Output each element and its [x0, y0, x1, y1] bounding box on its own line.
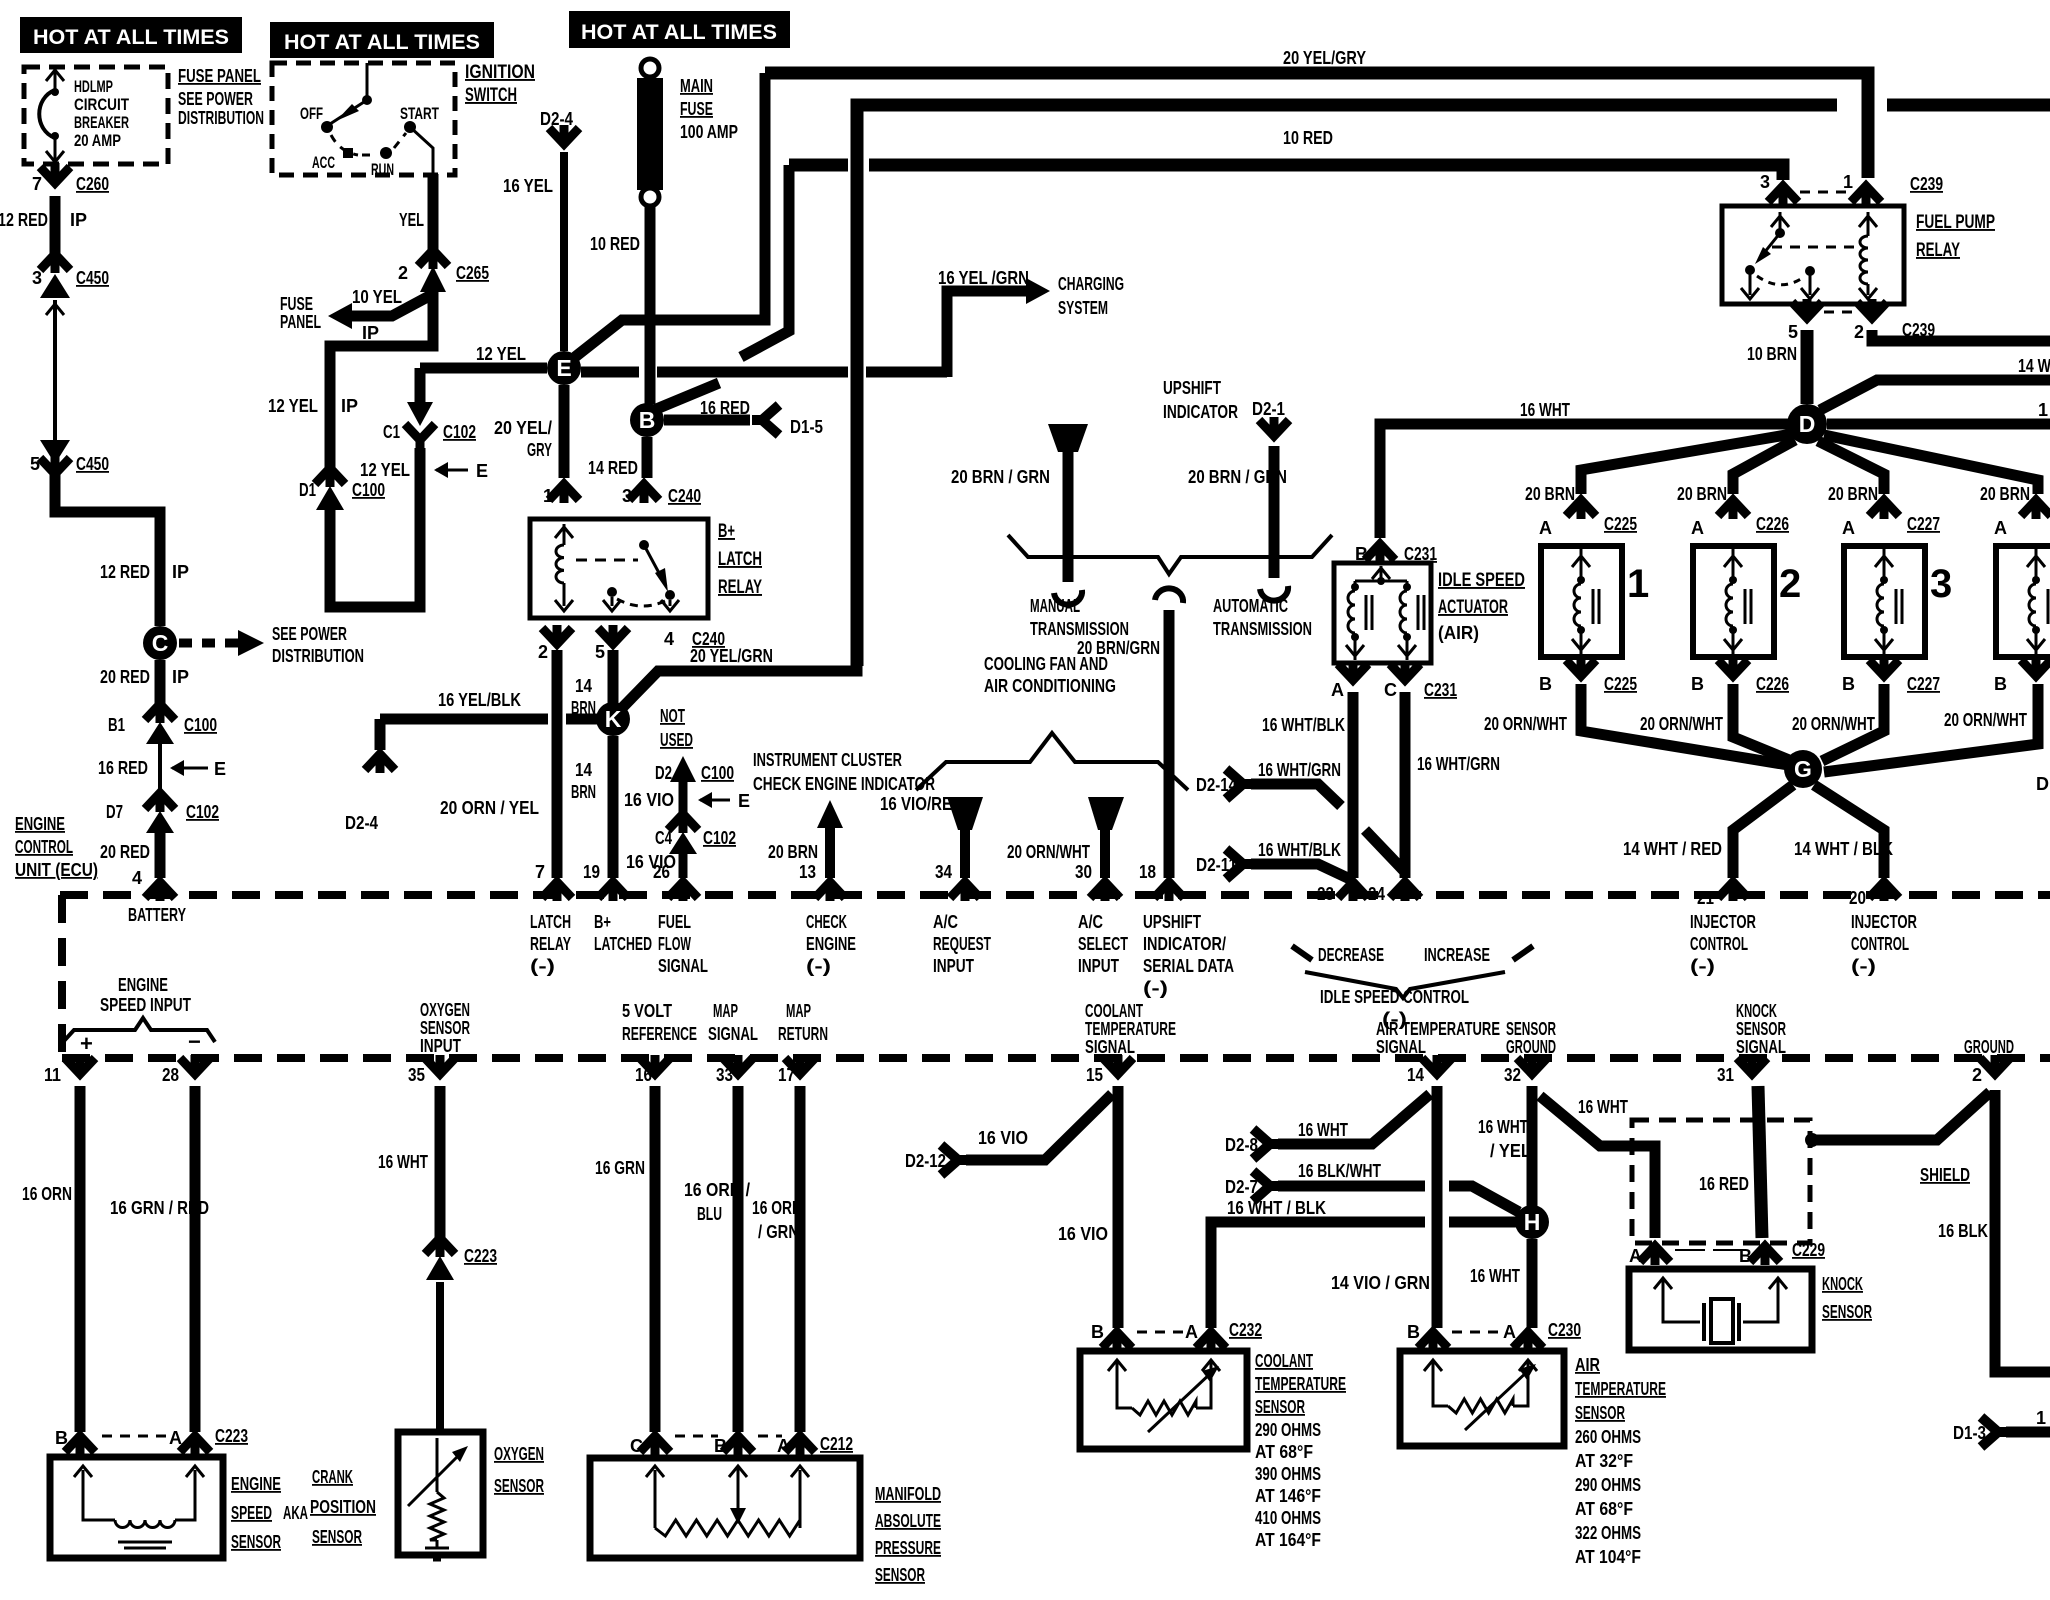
- svg-text:SIGNAL: SIGNAL: [1376, 1037, 1426, 1057]
- svg-text:SENSOR: SENSOR: [231, 1532, 281, 1552]
- latch relay switch: [639, 540, 649, 550]
- svg-text:1: 1: [2038, 400, 2048, 420]
- svg-text:24: 24: [1368, 884, 1385, 904]
- svg-text:SENSOR: SENSOR: [1506, 1019, 1556, 1039]
- latch relay coil: [555, 527, 573, 538]
- connector C100 pin B1: [145, 702, 175, 723]
- svg-text:RELAY: RELAY: [1916, 240, 1960, 261]
- svg-text:OXYGEN: OXYGEN: [494, 1444, 544, 1464]
- injector 3 connector B C227: [1869, 657, 1899, 678]
- svg-text:K: K: [605, 706, 622, 732]
- wire 14 WHT/RED to ECU pin 21: [1733, 785, 1793, 878]
- svg-text:32: 32: [1504, 1065, 1521, 1085]
- svg-text:E: E: [214, 759, 226, 779]
- svg-text:FLOW: FLOW: [658, 934, 691, 954]
- svg-text:TEMPERATURE: TEMPERATURE: [1255, 1374, 1346, 1394]
- connector latch pin 5: [598, 625, 628, 646]
- svg-text:20 ORN / YEL: 20 ORN / YEL: [440, 798, 539, 818]
- wire 16 RED thin: [158, 744, 162, 796]
- svg-text:SYSTEM: SYSTEM: [1058, 298, 1108, 318]
- wire 16 VIO to coolant sensor: [1113, 1086, 1124, 1328]
- wire 20 BRN/GRN upshift: [1063, 450, 1074, 582]
- connector D2-12: [941, 1145, 968, 1175]
- node K: [596, 702, 630, 736]
- svg-text:12 RED: 12 RED: [0, 210, 48, 230]
- svg-text:B: B: [1691, 674, 1704, 694]
- svg-text:(AIR): (AIR): [1438, 623, 1479, 643]
- svg-text:MANIFOLD: MANIFOLD: [875, 1484, 941, 1504]
- engine speed sensor interior: [83, 1470, 195, 1520]
- svg-text:MANUAL: MANUAL: [1030, 596, 1080, 616]
- wire 20 ORN/WHT injector1 to G: [1581, 684, 1788, 765]
- node H: [1515, 1205, 1549, 1239]
- connector C100 pin D2 arrow: [670, 756, 696, 782]
- connector ECU pin 34: [950, 880, 980, 901]
- svg-text:INPUT: INPUT: [933, 956, 974, 976]
- svg-text:REFERENCE: REFERENCE: [622, 1024, 697, 1044]
- svg-text:SWITCH: SWITCH: [465, 85, 517, 106]
- svg-text:3: 3: [1930, 562, 1952, 606]
- svg-text:A: A: [1994, 518, 2007, 538]
- svg-text:AT 68°F: AT 68°F: [1575, 1499, 1633, 1519]
- injector 4 coil: [2035, 548, 2038, 578]
- svg-text:D2-7: D2-7: [1225, 1177, 1258, 1197]
- svg-text:INDICATOR: INDICATOR: [1163, 402, 1238, 422]
- svg-text:5: 5: [30, 454, 40, 474]
- connector C450 pin 5: [40, 440, 70, 464]
- svg-text:410 OHMS: 410 OHMS: [1255, 1508, 1321, 1528]
- svg-text:16 VIO/RED: 16 VIO/RED: [880, 794, 963, 814]
- connector D2-1: [1259, 417, 1289, 438]
- svg-text:16 VIO: 16 VIO: [978, 1128, 1028, 1148]
- connector C223 pin B: [65, 1434, 95, 1455]
- svg-text:18: 18: [1139, 862, 1156, 882]
- connector ECU pin 16: [640, 1055, 670, 1076]
- svg-text:30: 30: [1075, 862, 1092, 882]
- svg-text:MAP: MAP: [786, 1001, 811, 1021]
- svg-text:10 RED: 10 RED: [1283, 128, 1333, 148]
- svg-text:19: 19: [583, 862, 600, 882]
- svg-text:D2-8: D2-8: [1225, 1135, 1258, 1155]
- ECU top dashed boundary: [60, 891, 2050, 899]
- svg-text:20 BRN: 20 BRN: [1980, 484, 2030, 504]
- ignition switch pivot: [362, 95, 372, 105]
- svg-text:16 WHT/GRN: 16 WHT/GRN: [1417, 754, 1500, 774]
- svg-text:INDICATOR/: INDICATOR/: [1143, 934, 1226, 954]
- svg-text:PANEL: PANEL: [280, 312, 321, 332]
- connector C223 pin A: [180, 1434, 210, 1455]
- connector ECU pin 28: [180, 1055, 210, 1076]
- svg-text:A: A: [1842, 518, 1855, 538]
- wire 16 ORN pin 11: [75, 1086, 86, 1432]
- svg-text:POSITION: POSITION: [310, 1497, 376, 1517]
- wire loop D1 to C1: [330, 448, 420, 607]
- svg-text:AIR TEMPERATURE: AIR TEMPERATURE: [1376, 1019, 1500, 1039]
- svg-text:D2-4: D2-4: [540, 109, 573, 129]
- svg-text:ABSOLUTE: ABSOLUTE: [875, 1511, 941, 1531]
- svg-text:MAP: MAP: [713, 1001, 738, 1021]
- svg-text:20 BRN: 20 BRN: [1828, 484, 1878, 504]
- svg-text:13: 13: [799, 862, 816, 882]
- connector C212 pin A: [785, 1434, 815, 1455]
- svg-text:RUN: RUN: [371, 160, 394, 179]
- wire 16 GRN/RED pin 28: [190, 1086, 201, 1432]
- svg-text:DISTRIBUTION: DISTRIBUTION: [272, 646, 364, 666]
- svg-text:GROUND: GROUND: [1506, 1037, 1556, 1057]
- wire 16 WHT/GRN from D2-14: [1251, 784, 1405, 872]
- svg-text:10 BRN: 10 BRN: [1747, 344, 1797, 364]
- svg-text:FUSE: FUSE: [280, 294, 313, 314]
- wire 20 BRN/GRN D2-1: [1269, 446, 1280, 578]
- connector C232 pin B: [1102, 1330, 1132, 1351]
- connector ECU pin 15: [1103, 1055, 1133, 1076]
- latch relay dashed link: [576, 559, 638, 562]
- svg-text:16 WHT: 16 WHT: [1478, 1117, 1528, 1137]
- svg-text:C100: C100: [352, 480, 385, 500]
- arrow input A/C request: [947, 797, 983, 830]
- svg-text:20 YEL/GRY: 20 YEL/GRY: [1283, 48, 1366, 68]
- svg-text:SIGNAL: SIGNAL: [658, 956, 708, 976]
- svg-text:14: 14: [575, 760, 592, 780]
- svg-text:C102: C102: [703, 828, 736, 848]
- hook automatic transmission: [1260, 586, 1288, 601]
- svg-text:16 ORN: 16 ORN: [22, 1184, 72, 1204]
- arrow to charging system: [1026, 278, 1050, 304]
- air temperature sensor box: [1400, 1351, 1564, 1446]
- svg-text:16 RED: 16 RED: [700, 398, 750, 418]
- svg-text:14 W: 14 W: [2018, 356, 2050, 376]
- svg-text:16 WHT: 16 WHT: [378, 1152, 428, 1172]
- RUN contact: [380, 147, 392, 159]
- svg-text:16 YEL /GRN: 16 YEL /GRN: [938, 268, 1029, 288]
- fuel pump relay interior switch: [1771, 216, 1789, 227]
- svg-text:H: H: [1524, 1209, 1541, 1235]
- wire START to YEL: [410, 127, 433, 176]
- wire 16 WHT from actuator to node D: [1380, 424, 1790, 538]
- connector D1-3: [1981, 1417, 2008, 1447]
- svg-text:+: +: [80, 1031, 93, 1056]
- svg-text:16 YEL: 16 YEL: [503, 176, 553, 196]
- hook manual transmission: [1054, 590, 1082, 605]
- wire 20 RED IP: [155, 660, 166, 710]
- connector ECU pin 24: [1390, 880, 1420, 901]
- wire 16 WHT pin 32 to node H: [1527, 1086, 1538, 1206]
- wire 10 RED from main fuse to node B: [645, 206, 656, 404]
- svg-text:28: 28: [162, 1065, 179, 1085]
- svg-text:20 BRN / GRN: 20 BRN / GRN: [951, 467, 1050, 487]
- svg-text:IP: IP: [341, 396, 358, 416]
- svg-text:E: E: [556, 355, 571, 381]
- svg-text:AKA: AKA: [283, 1503, 308, 1523]
- svg-text:20 ORN/WHT: 20 ORN/WHT: [1007, 842, 1090, 862]
- svg-text:290 OHMS: 290 OHMS: [1255, 1420, 1321, 1440]
- svg-text:G: G: [1794, 756, 1812, 782]
- svg-text:ENGINE: ENGINE: [15, 814, 65, 834]
- svg-text:UPSHIFT: UPSHIFT: [1163, 378, 1221, 398]
- svg-text:SELECT: SELECT: [1078, 934, 1128, 954]
- svg-text:INPUT: INPUT: [420, 1036, 461, 1056]
- svg-text:CONTROL: CONTROL: [1851, 934, 1909, 954]
- svg-text:14 RED: 14 RED: [588, 458, 638, 478]
- svg-text:CHECK ENGINE INDICATOR: CHECK ENGINE INDICATOR: [753, 774, 935, 794]
- svg-text:C229: C229: [1792, 1240, 1825, 1260]
- svg-text:ACTUATOR: ACTUATOR: [1438, 597, 1508, 618]
- svg-text:BATTERY: BATTERY: [128, 905, 186, 925]
- svg-text:A: A: [169, 1428, 182, 1448]
- injector 1 box: [1541, 546, 1622, 657]
- svg-text:D2-4: D2-4: [345, 813, 378, 833]
- switch arc dashes: [331, 133, 406, 155]
- wire 16 WHT/GRN to ECU pin 24: [1400, 692, 1411, 878]
- oxygen sensor interior: [436, 1438, 439, 1492]
- wire 16 WHT pin 35: [435, 1086, 446, 1240]
- svg-text:RETURN: RETURN: [778, 1024, 828, 1044]
- connector ECU pin 32: [1517, 1055, 1547, 1076]
- svg-text:B+: B+: [718, 521, 735, 542]
- B+ latch relay box: [530, 519, 708, 618]
- tick decrease: [1292, 946, 1312, 960]
- svg-text:SHIELD: SHIELD: [1920, 1165, 1970, 1185]
- connector C239 pin 2: [1857, 299, 1887, 320]
- wire YEL to C265: [428, 174, 439, 260]
- wire 16 ORN/GRN pin 17: [795, 1086, 806, 1432]
- wire 16 WHT/BLK coolant A to H: [1211, 1222, 1516, 1328]
- svg-text:26: 26: [653, 862, 670, 882]
- svg-text:TRANSMISSION: TRANSMISSION: [1030, 619, 1129, 639]
- arrow check engine: [817, 800, 843, 828]
- svg-text:CRANK: CRANK: [312, 1467, 353, 1487]
- svg-text:B: B: [1842, 674, 1855, 694]
- svg-text:DECREASE: DECREASE: [1318, 945, 1384, 965]
- svg-text:20 RED: 20 RED: [100, 667, 150, 687]
- D spoke to injector 3: [1818, 441, 1884, 494]
- ignition switch feed line: [366, 63, 369, 97]
- svg-text:C231: C231: [1424, 680, 1457, 700]
- svg-text:CONTROL: CONTROL: [1690, 934, 1748, 954]
- svg-text:260 OHMS: 260 OHMS: [1575, 1427, 1641, 1447]
- svg-text:KNOCK: KNOCK: [1736, 1001, 1777, 1021]
- wire 16 VIO to ECU pin 26: [679, 852, 688, 878]
- svg-text:FUEL: FUEL: [658, 912, 691, 932]
- main fuse 100 AMP: [641, 59, 659, 77]
- connector ECU pin 4: [145, 880, 175, 901]
- connector C232 pin A: [1196, 1330, 1226, 1351]
- D spoke to injector 4: [1824, 435, 2038, 494]
- svg-text:4: 4: [132, 868, 142, 888]
- svg-text:C450: C450: [76, 268, 109, 288]
- svg-text:KNOCK: KNOCK: [1822, 1274, 1863, 1294]
- svg-text:SIGNAL: SIGNAL: [1085, 1037, 1135, 1057]
- dash C212 a: [675, 1435, 718, 1438]
- fuel pump relay coil: [1859, 216, 1877, 227]
- svg-text:5: 5: [595, 642, 605, 662]
- injector 1 connector A C225: [1566, 498, 1596, 519]
- injector 1 connector B C225: [1566, 657, 1596, 678]
- svg-text:C223: C223: [215, 1426, 248, 1446]
- node C: [143, 626, 177, 660]
- svg-text:AT 104°F: AT 104°F: [1575, 1547, 1641, 1567]
- svg-text:35: 35: [408, 1065, 425, 1085]
- svg-text:16 BLK: 16 BLK: [1938, 1221, 1988, 1241]
- svg-text:D1-5: D1-5: [790, 417, 823, 437]
- svg-text:B+: B+: [594, 912, 611, 932]
- svg-text:CONTROL: CONTROL: [15, 837, 73, 857]
- svg-text:D2-14: D2-14: [1196, 775, 1237, 795]
- svg-text:B1: B1: [108, 715, 125, 735]
- svg-text:C265: C265: [456, 263, 489, 283]
- svg-text:IDLE SPEED: IDLE SPEED: [1438, 570, 1525, 591]
- injector 3 connector A C227: [1869, 498, 1899, 519]
- svg-text:LATCH: LATCH: [530, 912, 571, 932]
- wire thin to C450 pin 5: [53, 300, 57, 450]
- svg-text:2: 2: [1854, 322, 1864, 342]
- svg-text:16 GRN / RED: 16 GRN / RED: [110, 1198, 209, 1218]
- svg-text:REQUEST: REQUEST: [933, 934, 991, 954]
- connector D2-4 top: [549, 125, 579, 146]
- injector 4 box: [1996, 546, 2050, 657]
- svg-text:SIGNAL: SIGNAL: [708, 1024, 758, 1044]
- connector C212 pin C: [640, 1434, 670, 1455]
- svg-text:AUTOMATIC: AUTOMATIC: [1213, 596, 1288, 616]
- wire 20 YEL/GRN riser x857: [857, 105, 2050, 666]
- svg-text:IP: IP: [70, 210, 87, 230]
- wire 20 BRN to ECU pin 13: [825, 826, 835, 878]
- idle speed control bracket: [1305, 972, 1505, 998]
- svg-text:FUSE PANEL: FUSE PANEL: [178, 66, 261, 86]
- connector C239 pin 3: [1768, 184, 1798, 205]
- shield junction dot: [1805, 1133, 1819, 1147]
- svg-text:C102: C102: [443, 422, 476, 442]
- svg-text:IP: IP: [362, 323, 379, 343]
- transmission selector bracket: [1008, 535, 1332, 574]
- dashed arrow SEE POWER DISTRIBUTION: [179, 639, 238, 648]
- svg-text:−: −: [188, 1029, 201, 1054]
- svg-text:15: 15: [1086, 1065, 1103, 1085]
- wire from E to charging system: [581, 291, 1026, 377]
- svg-text:A: A: [1331, 680, 1344, 700]
- svg-text:16 VIO: 16 VIO: [1058, 1224, 1108, 1244]
- cooling fan bracket: [916, 733, 1188, 790]
- svg-text:A/C: A/C: [933, 912, 958, 932]
- svg-text:16 WHT: 16 WHT: [1470, 1266, 1520, 1286]
- svg-text:SERIAL DATA: SERIAL DATA: [1143, 956, 1234, 976]
- svg-text:D2-12: D2-12: [905, 1151, 946, 1171]
- arrow upshift indicator: [1048, 424, 1088, 452]
- svg-text:TRANSMISSION: TRANSMISSION: [1213, 619, 1312, 639]
- injector 3 box: [1844, 546, 1925, 657]
- svg-text:20 RED: 20 RED: [100, 842, 150, 862]
- wire 10 BRN to node D: [1801, 330, 1814, 404]
- START contact: [404, 121, 416, 133]
- svg-text:(-): (-): [530, 956, 555, 976]
- connector ECU pin 20: [1869, 880, 1899, 901]
- wire 16 RED knock signal pin 31: [1758, 1086, 1762, 1238]
- svg-text:D2-11: D2-11: [1196, 855, 1237, 875]
- connector ECU pin 7: [542, 880, 572, 901]
- svg-text:AT 164°F: AT 164°F: [1255, 1530, 1321, 1550]
- wire 12 RED IP to node C: [55, 470, 160, 626]
- svg-text:ACC: ACC: [312, 153, 335, 172]
- svg-text:MAIN: MAIN: [680, 76, 713, 96]
- svg-text:D2: D2: [655, 763, 672, 783]
- connector ECU pin 26: [668, 880, 698, 901]
- svg-text:E: E: [476, 461, 488, 481]
- svg-text:20 ORN/WHT: 20 ORN/WHT: [1484, 714, 1567, 734]
- svg-text:21: 21: [1697, 888, 1714, 908]
- wire 16 YEL to D2-4: [560, 152, 568, 351]
- dash C223: [102, 1435, 172, 1438]
- svg-text:ENGINE: ENGINE: [118, 975, 168, 995]
- svg-text:16 YEL/BLK: 16 YEL/BLK: [438, 690, 521, 710]
- svg-text:IDLE SPEED CONTROL: IDLE SPEED CONTROL: [1320, 987, 1469, 1007]
- svg-text:C227: C227: [1907, 514, 1940, 534]
- node D: [1787, 404, 1827, 444]
- idle speed actuator box: [1334, 563, 1431, 663]
- svg-text:DISTRIBUTION: DISTRIBUTION: [178, 108, 264, 128]
- svg-text:16 RED: 16 RED: [98, 758, 148, 778]
- svg-text:D: D: [2036, 774, 2049, 794]
- svg-text:14: 14: [1407, 1065, 1424, 1085]
- svg-text:16 ORN /: 16 ORN /: [684, 1180, 750, 1200]
- svg-text:B: B: [55, 1428, 68, 1448]
- connector C230 pin A: [1513, 1330, 1543, 1351]
- svg-text:RELAY: RELAY: [718, 577, 762, 598]
- connector C230 pin B: [1418, 1330, 1448, 1351]
- wire latch pin2 to ECU pin 7: [552, 650, 563, 878]
- svg-text:B: B: [714, 1436, 727, 1456]
- svg-text:C223: C223: [464, 1246, 497, 1266]
- svg-text:INJECTOR: INJECTOR: [1690, 912, 1756, 932]
- svg-text:3: 3: [622, 486, 632, 506]
- svg-text:31: 31: [1717, 1065, 1734, 1085]
- ignition switch dashed box: [272, 63, 455, 175]
- svg-text:IGNITION: IGNITION: [465, 62, 535, 83]
- wire shield to ground pin 2: [1812, 1092, 1990, 1140]
- svg-text:12 YEL: 12 YEL: [360, 460, 410, 480]
- injector 2 box: [1693, 546, 1774, 657]
- svg-text:16 ORN: 16 ORN: [752, 1198, 802, 1218]
- svg-text:C102: C102: [186, 802, 219, 822]
- shield dashed box: [1632, 1120, 1810, 1243]
- connector ECU pin 18: [1154, 880, 1184, 901]
- svg-text:20: 20: [1849, 888, 1866, 908]
- svg-text:GRY: GRY: [527, 440, 552, 460]
- banner HOT AT ALL TIMES (right): [569, 11, 790, 48]
- svg-text:5: 5: [1788, 322, 1798, 342]
- svg-text:BRN: BRN: [571, 782, 596, 802]
- E reference arrow 3: [700, 799, 730, 802]
- svg-text:AIR CONDITIONING: AIR CONDITIONING: [984, 676, 1116, 696]
- wire 12 YEL IP down to C100 D1: [330, 290, 433, 474]
- svg-text:AT 146°F: AT 146°F: [1255, 1486, 1321, 1506]
- connector D2-11: [1226, 849, 1253, 879]
- connector C102 pin C1: [407, 402, 433, 426]
- wire 16 WHT from D2-8 to pin 14: [1278, 1094, 1430, 1144]
- svg-text:SPEED INPUT: SPEED INPUT: [100, 995, 191, 1015]
- connector D2-8: [1253, 1129, 1280, 1159]
- svg-text:C230: C230: [1548, 1320, 1581, 1340]
- wire 14 RED to latch relay pin 3: [642, 437, 653, 478]
- wire 16 BLK/WHT from D2-7 to node H: [1278, 1186, 1519, 1212]
- svg-text:C260: C260: [76, 174, 109, 194]
- svg-text:A: A: [1691, 518, 1704, 538]
- svg-text:16 BLK/WHT: 16 BLK/WHT: [1298, 1161, 1381, 1181]
- svg-text:C: C: [1384, 680, 1397, 700]
- svg-text:SENSOR: SENSOR: [1255, 1397, 1305, 1417]
- injector 3 coil: [1883, 548, 1886, 578]
- wire 20 ORN/WHT injector4 to G: [1824, 684, 2038, 772]
- ACC contact: [343, 148, 353, 158]
